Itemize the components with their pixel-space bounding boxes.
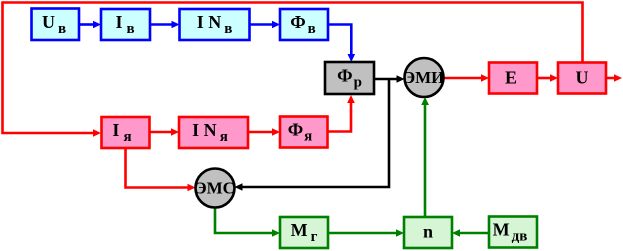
svg-text:Е: Е [505,68,517,88]
block n [404,217,452,248]
block М_г [280,217,328,248]
block U [558,63,606,94]
wire: Ф_в to Ф_р [328,25,351,56]
wire: IN_я to Ф_я [248,131,273,134]
wire: feedback U top [3,3,583,134]
wire: arrow into I_я from feedback [93,129,101,137]
block E [489,63,537,94]
summing node ЭМС [196,169,235,208]
block I_я [102,117,150,148]
svg-text:n: n [423,222,433,242]
block Ф_р [325,62,374,94]
wire: I_в to IN_в [150,23,173,26]
wire: E to U [537,77,551,80]
wire: ЭМС down to М_г [215,208,273,234]
wire: U output [606,77,614,80]
wire: U_в to I_в [79,23,94,26]
wire: black branch down to ЭМС [242,79,389,187]
wire: М_г to n [328,232,397,235]
svg-text:ЭМС: ЭМС [195,179,235,198]
svg-text:U: U [576,68,589,88]
wire: I_я to IN_я [150,131,173,134]
block I_в [101,9,150,40]
block Ф_в [280,9,328,40]
wire: I_я down to ЭМС [126,148,189,188]
svg-text:ЭМИ: ЭМИ [404,68,445,87]
wire: Ф_я to Ф_р [328,103,352,132]
wire: М_дв to n [459,232,489,235]
block IN_я [179,117,248,148]
wire: Ф_р to ЭМИ [374,78,397,81]
block Ф_я [280,117,328,148]
wire: n up to ЭМИ [424,104,427,217]
wire: ЭМИ to E [443,77,482,80]
wire: IN_в to Ф_в [250,23,274,26]
summing node ЭМИ [405,58,444,97]
block IN_в [180,9,250,40]
block U_в [32,9,80,41]
block М_дв [489,217,537,248]
